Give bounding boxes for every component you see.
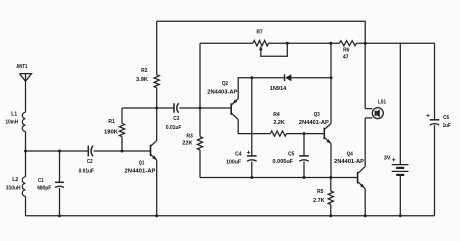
svg-text:C6: C6 bbox=[443, 115, 449, 121]
capacitor C4 bbox=[226, 149, 257, 177]
wire Q1 collector bbox=[156, 108, 158, 141]
node Q4 emitter ground bbox=[364, 214, 367, 217]
svg-text:R1: R1 bbox=[108, 119, 114, 125]
wire supply rail bbox=[200, 42, 435, 44]
speaker LS1 bbox=[365, 43, 386, 118]
node Q1 emitter ground bbox=[155, 214, 158, 217]
diode D1 1N914 bbox=[270, 74, 292, 92]
node C5 top bbox=[303, 132, 306, 135]
resistor R3 bbox=[182, 108, 202, 178]
wire R4 to Q3 base bbox=[287, 133, 325, 135]
node C4 bottom bbox=[250, 176, 253, 179]
inductor L1 bbox=[6, 112, 26, 132]
wire top rail from R2 bbox=[157, 21, 366, 43]
svg-text:Q1: Q1 bbox=[139, 160, 145, 166]
svg-text:+: + bbox=[392, 157, 397, 164]
svg-text:C1: C1 bbox=[38, 178, 44, 184]
node Q1 collector / R2 / C3 bbox=[155, 107, 158, 110]
svg-text:+: + bbox=[426, 113, 430, 120]
transistor Q1 bbox=[125, 141, 157, 175]
svg-text:3.9K: 3.9K bbox=[136, 77, 148, 83]
svg-text:2N4401-AP: 2N4401-AP bbox=[125, 168, 156, 174]
svg-text:R6: R6 bbox=[343, 48, 349, 54]
node C1 top bbox=[58, 150, 61, 153]
wire L1 to node bbox=[25, 132, 27, 152]
svg-text:2.2K: 2.2K bbox=[273, 120, 284, 126]
svg-text:+: + bbox=[246, 149, 251, 156]
potentiometer R7 bbox=[253, 29, 287, 56]
node battery ground bbox=[399, 214, 402, 217]
wire rail to R3 node bbox=[199, 43, 201, 108]
svg-text:680pF: 680pF bbox=[37, 185, 52, 191]
wire L2 to ground rail bbox=[25, 196, 27, 215]
resistor R1 bbox=[104, 108, 125, 151]
svg-text:R7: R7 bbox=[257, 29, 263, 35]
svg-text:0.005uF: 0.005uF bbox=[273, 159, 294, 165]
resistor R5 bbox=[313, 178, 333, 216]
antenna ANT1 bbox=[16, 64, 31, 81]
svg-text:3V: 3V bbox=[384, 155, 391, 161]
svg-text:R4: R4 bbox=[273, 112, 280, 118]
transistor Q4 bbox=[334, 151, 365, 189]
resistor R2 bbox=[136, 21, 159, 108]
node R5 top bbox=[329, 176, 332, 179]
svg-text:100uF: 100uF bbox=[226, 159, 242, 165]
svg-text:2N4401-AP: 2N4401-AP bbox=[299, 120, 329, 126]
resistor R6 bbox=[340, 41, 357, 61]
svg-text:Q4: Q4 bbox=[347, 151, 354, 157]
node R5 bottom bbox=[329, 214, 332, 217]
wire ground rail bbox=[26, 215, 435, 217]
svg-text:R2: R2 bbox=[141, 68, 147, 74]
capacitor C1 bbox=[37, 151, 64, 216]
svg-text:C5: C5 bbox=[288, 152, 294, 158]
node C5 bottom bbox=[303, 176, 306, 179]
wire Q4 collector to speaker bbox=[364, 118, 366, 167]
battery 3V bbox=[384, 43, 409, 216]
capacitor C2 bbox=[79, 146, 95, 175]
svg-text:LS1: LS1 bbox=[378, 99, 386, 105]
wire Q3 emitter bbox=[330, 144, 332, 178]
wire diode to Q3 collector node bbox=[291, 77, 331, 79]
svg-text:C4: C4 bbox=[235, 151, 242, 157]
wire Q3 collector bbox=[330, 43, 332, 123]
node R3 top bbox=[199, 107, 202, 110]
svg-text:0.01uF: 0.01uF bbox=[79, 168, 95, 174]
node diode anode / C4 bbox=[250, 76, 253, 79]
capacitor C5 bbox=[273, 134, 309, 178]
node R1 bottom bbox=[121, 150, 124, 153]
wire Q2 emitter to diode wire bbox=[238, 78, 252, 99]
wire C3 to node bbox=[179, 107, 200, 109]
resistor R4 bbox=[270, 112, 286, 136]
wire Q1 emitter to ground bbox=[156, 160, 158, 216]
svg-text:2N4403-AP: 2N4403-AP bbox=[207, 90, 237, 96]
capacitor C6 bbox=[426, 43, 451, 216]
svg-text:ANT1: ANT1 bbox=[16, 64, 27, 70]
svg-text:10mH: 10mH bbox=[6, 120, 19, 126]
svg-text:180K: 180K bbox=[104, 129, 118, 135]
svg-text:Q3: Q3 bbox=[314, 112, 320, 118]
svg-text:C3: C3 bbox=[173, 116, 179, 122]
svg-text:0.01uF: 0.01uF bbox=[166, 125, 182, 131]
svg-text:Q2: Q2 bbox=[222, 81, 228, 87]
svg-text:1uF: 1uF bbox=[443, 123, 452, 129]
wire C4 column bbox=[251, 78, 253, 156]
svg-text:22K: 22K bbox=[182, 141, 192, 147]
node R7 wiper bbox=[286, 42, 289, 45]
wire C2 to Q1 base bbox=[94, 150, 151, 152]
capacitor C3 bbox=[166, 103, 182, 131]
svg-text:310uH: 310uH bbox=[6, 185, 21, 191]
svg-text:2.7K: 2.7K bbox=[313, 198, 324, 204]
node L1/L2 junction bbox=[24, 150, 27, 153]
wire emitter rail bbox=[200, 177, 358, 179]
transistor Q2 bbox=[207, 81, 238, 119]
svg-text:C2: C2 bbox=[87, 159, 93, 165]
svg-text:R5: R5 bbox=[317, 189, 323, 195]
inductor L2 bbox=[6, 151, 26, 196]
wire antenna to L1 bbox=[25, 81, 27, 112]
node diode column top bbox=[329, 42, 332, 45]
wire tank to C2 bbox=[26, 150, 89, 152]
svg-text:47: 47 bbox=[343, 55, 349, 61]
svg-text:2N4401-AP: 2N4401-AP bbox=[334, 159, 364, 165]
wire to diode bbox=[252, 77, 284, 79]
transistor Q3 bbox=[299, 112, 331, 144]
svg-text:1N914: 1N914 bbox=[270, 86, 287, 92]
wire Q2 collector to R4 bbox=[238, 120, 270, 134]
wire R1 to C3 bbox=[122, 107, 174, 109]
svg-text:L1: L1 bbox=[11, 112, 17, 118]
svg-text:R3: R3 bbox=[186, 133, 192, 139]
svg-text:L2: L2 bbox=[12, 177, 18, 183]
node C1 bottom bbox=[58, 214, 61, 217]
node speaker column top bbox=[364, 42, 367, 45]
node diode cathode column bbox=[330, 76, 333, 79]
wire Q2 base bbox=[200, 107, 231, 109]
wire Q4 emitter to ground bbox=[364, 189, 366, 216]
